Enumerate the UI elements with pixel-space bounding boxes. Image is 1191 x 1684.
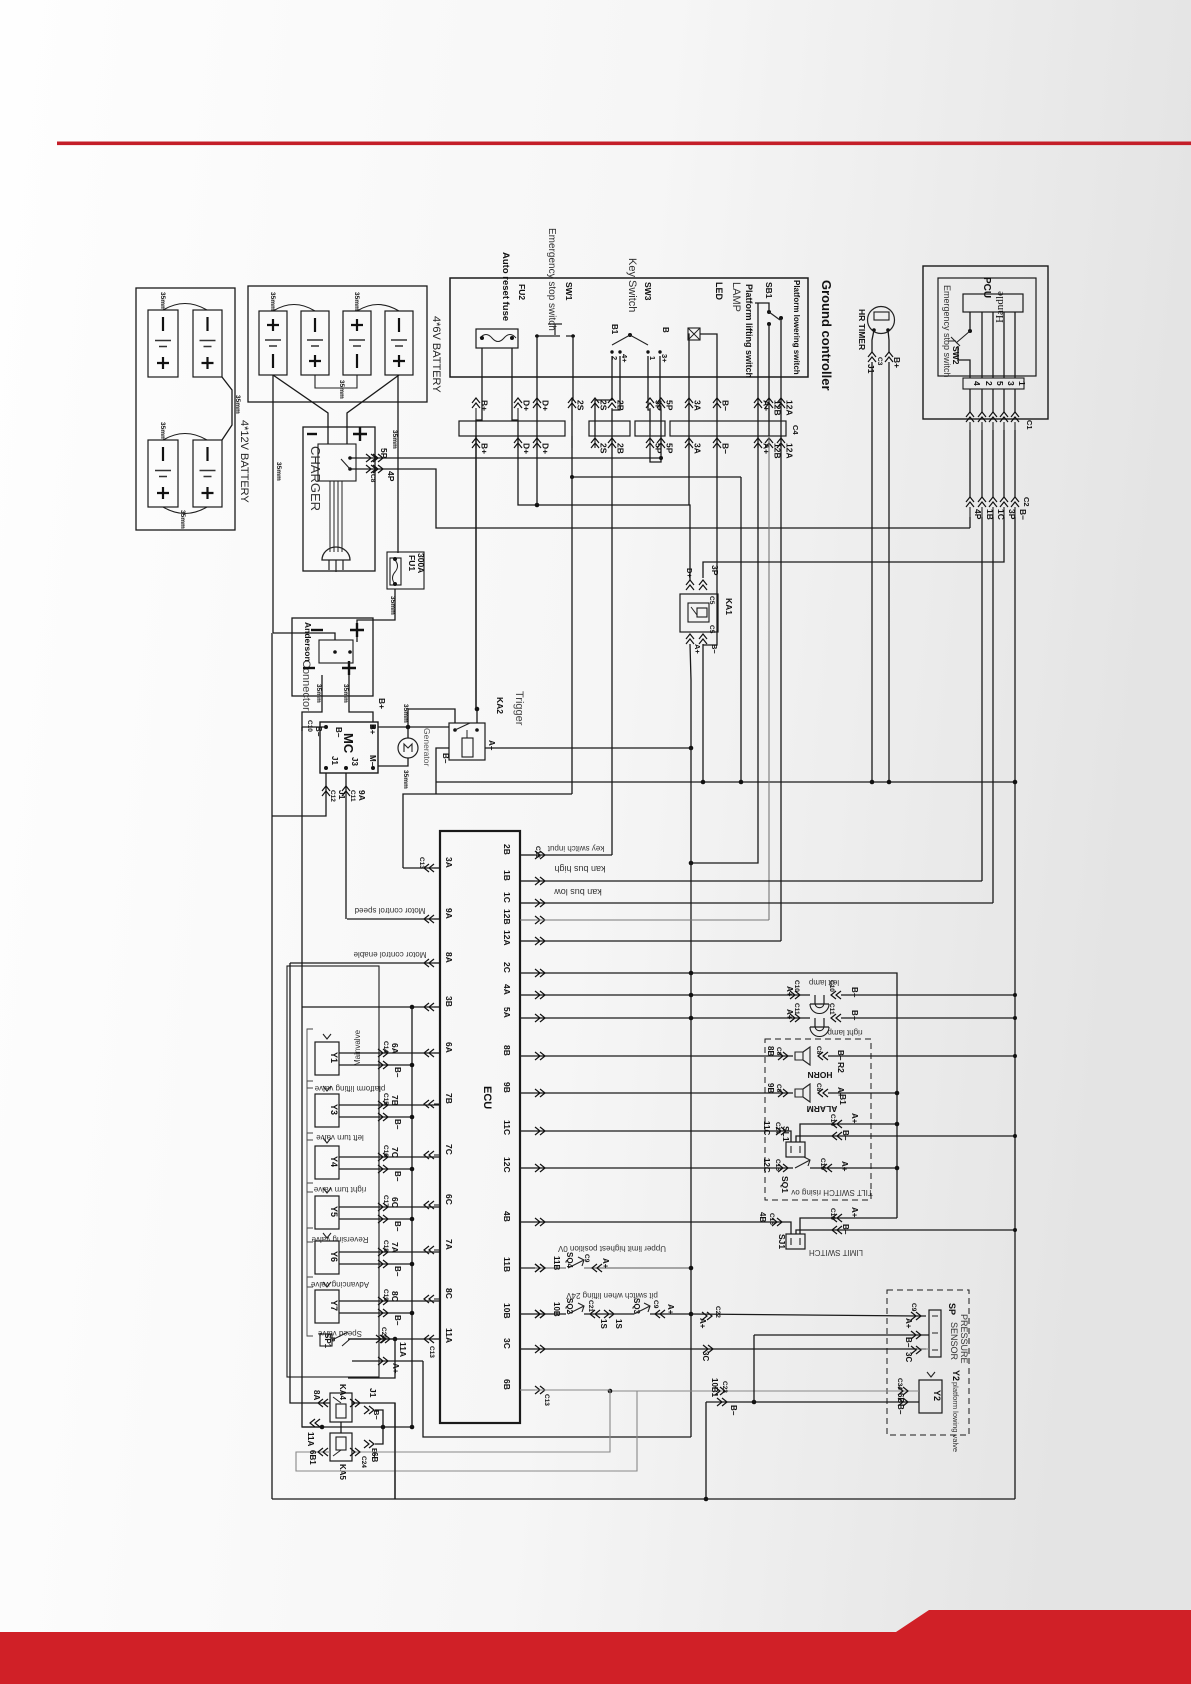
valve module box (287, 966, 379, 1377)
svg-text:C8: C8 (369, 474, 376, 483)
svg-text:B−: B− (372, 1410, 381, 1420)
fuse FU1 300A box (387, 552, 424, 589)
ECU main box (440, 831, 520, 1423)
8A rail down to KA4 (290, 963, 330, 1403)
svg-text:35mm: 35mm (389, 596, 396, 615)
svg-text:platform lifting valve: platform lifting valve (314, 1084, 385, 1093)
svg-text:11A: 11A (398, 1342, 408, 1357)
junction line 11A (302, 1426, 412, 1428)
charger internal box with relay contact (318, 444, 356, 481)
svg-text:SENSOR: SENSOR (949, 1322, 959, 1361)
svg-text:4*12V BATTERY: 4*12V BATTERY (238, 420, 250, 503)
svg-text:B+: B+ (480, 400, 490, 411)
red header rule (57, 142, 1191, 146)
wire B+ main down from bar (475, 436, 477, 709)
wire FU1 to Anderson plus 35mm (357, 589, 395, 642)
svg-text:Advancing valve: Advancing valve (310, 1280, 369, 1289)
svg-text:2C: 2C (502, 962, 512, 973)
wire SW1 left to D+ arrow (536, 336, 538, 436)
svg-text:J1: J1 (368, 1388, 378, 1398)
svg-text:10B1: 10B1 (710, 1378, 719, 1398)
svg-text:C23: C23 (721, 1381, 728, 1393)
svg-text:C15: C15 (819, 1158, 826, 1170)
battery cell G2 (193, 310, 222, 377)
svg-text:PRESSURE: PRESSURE (959, 1314, 969, 1364)
wire Anderson plus down to MC B+ 35mm (349, 675, 373, 722)
svg-text:J1: J1 (330, 756, 339, 765)
svg-text:FU1: FU1 (407, 555, 417, 571)
wire SL1 signal 11C from ECU (520, 1131, 791, 1142)
svg-text:C1: C1 (1025, 420, 1034, 430)
wire alarm A+ to 2C rail (828, 1092, 897, 1094)
svg-text:12A: 12A (785, 400, 795, 416)
battery cell G8 (385, 311, 413, 375)
charger AC plug (322, 547, 350, 560)
C4 bar pin arrows and labels above/below (472, 398, 480, 408)
svg-text:B−: B− (393, 1067, 402, 1078)
svg-text:4: 4 (972, 381, 982, 386)
svg-text:7B: 7B (390, 1095, 400, 1106)
contactor MC box (320, 722, 378, 773)
svg-text:A+: A+ (487, 740, 496, 751)
svg-text:C12: C12 (329, 790, 336, 802)
wire SB1 A+ down (757, 303, 759, 436)
wire Y3 B- return (339, 1116, 412, 1118)
valve Y4 (307, 1133, 313, 1192)
svg-text:D+: D+ (522, 400, 532, 411)
svg-text:10B: 10B (552, 1302, 561, 1317)
svg-text:8C: 8C (390, 1291, 400, 1302)
svg-text:C15: C15 (774, 1159, 781, 1171)
svg-text:11C: 11C (762, 1121, 771, 1135)
svg-text:C14: C14 (382, 1041, 389, 1053)
svg-text:11C: 11C (502, 1120, 512, 1135)
svg-text:kan bus high: kan bus high (554, 864, 605, 874)
wire B- return via bottom (705, 1402, 707, 1499)
wire KA5 coil up to junction (340, 1427, 342, 1433)
wire MC J1 pin down with arrow to frame rail (272, 773, 326, 816)
svg-text:1: 1 (648, 356, 657, 360)
svg-text:Y2: Y2 (951, 1370, 961, 1381)
svg-text:5P: 5P (665, 443, 675, 454)
svg-text:11B: 11B (502, 1257, 512, 1272)
wire SW1 right to 2S arrow with jog (572, 336, 573, 436)
wire 2B from bar down to ECU key switch input (611, 436, 613, 855)
battery cell G5 (259, 311, 287, 375)
wire SP B- drop (753, 1335, 755, 1402)
svg-text:B−: B− (841, 1224, 850, 1235)
wire B- bus corner to ECU 3A feed (403, 794, 572, 868)
wire SJ1 B- from B- rail (796, 1230, 1015, 1234)
svg-text:LAMP: LAMP (730, 282, 742, 312)
svg-text:3: 3 (1006, 381, 1016, 386)
wire KA4 coil to junction (340, 1422, 342, 1427)
svg-text:11A: 11A (444, 1328, 454, 1343)
svg-text:2S: 2S (576, 400, 586, 411)
wire handle 1B kan bus high down (981, 517, 983, 881)
cell interconnect arcs 35mm (163, 304, 207, 311)
svg-text:Y6: Y6 (329, 1251, 339, 1262)
svg-text:300A: 300A (416, 553, 426, 573)
svg-text:1S: 1S (599, 1319, 608, 1329)
svg-text:B+: B+ (368, 724, 377, 735)
svg-text:platform lowing valve: platform lowing valve (951, 1382, 960, 1452)
svg-text:right turn valve: right turn valve (313, 1185, 366, 1194)
svg-text:C11: C11 (793, 1003, 800, 1015)
svg-text:Reversing valve: Reversing valve (311, 1235, 368, 1244)
svg-text:5P: 5P (665, 400, 675, 411)
charger AC cord (330, 481, 342, 552)
svg-text:8B: 8B (766, 1046, 775, 1056)
svg-text:C10: C10 (828, 980, 835, 992)
svg-text:7A: 7A (390, 1242, 400, 1253)
wire Y6 signal 7A (339, 1251, 440, 1253)
svg-text:SP: SP (947, 1303, 957, 1315)
svg-text:2S: 2S (599, 400, 609, 411)
relay KA4 box (330, 1393, 352, 1422)
wire key switch input 2B (520, 854, 612, 856)
svg-text:3A: 3A (444, 857, 454, 868)
wire SL1 B- from B- rail (796, 1136, 1015, 1142)
svg-text:A+: A+ (785, 986, 794, 997)
svg-text:KA4: KA4 (338, 1384, 347, 1401)
svg-text:35mm: 35mm (391, 430, 398, 449)
svg-text:J1: J1 (866, 364, 876, 374)
svg-text:3C: 3C (904, 1352, 913, 1362)
pressure sensor pin wires (911, 1312, 921, 1320)
svg-text:kan bus low: kan bus low (554, 887, 602, 897)
valve Y3 (307, 1081, 313, 1140)
wire MC B+ to KA2 and generator (378, 726, 449, 728)
svg-text:A+: A+ (698, 1318, 707, 1329)
svg-text:A+: A+ (785, 1009, 794, 1020)
KA1 pins (686, 580, 694, 590)
svg-text:6B: 6B (502, 1379, 512, 1390)
valve Y1 (307, 1029, 313, 1088)
2C rail from ECU to switch column (520, 973, 897, 1218)
svg-text:6C: 6C (444, 1194, 454, 1205)
svg-text:SQ3: SQ3 (632, 1298, 641, 1315)
wire J1 drop from KA4 to bottom (394, 1403, 396, 1499)
svg-text:C10: C10 (306, 720, 313, 732)
wire SP1 to ECU 11A (348, 1338, 395, 1340)
svg-text:Trigger: Trigger (513, 691, 525, 726)
svg-text:4B: 4B (758, 1212, 767, 1222)
battery bank B1 4*6V BATTERY box (248, 286, 427, 402)
wire handle B- down to main B- rail (1014, 517, 1016, 1499)
svg-text:Motor control enable: Motor control enable (353, 950, 426, 959)
svg-text:HORN: HORN (807, 1070, 832, 1080)
ECU 6B wire down to KA5 (520, 1389, 610, 1391)
red footer band (0, 1610, 1191, 1684)
wire SP1 lower terminal (348, 1339, 395, 1378)
Handle box (963, 294, 1023, 312)
wire left lamp B- to rail (841, 994, 1015, 996)
svg-text:7A: 7A (444, 1239, 454, 1250)
svg-text:3A: 3A (693, 443, 703, 454)
wire timer B+ lead (888, 330, 889, 352)
svg-text:C3: C3 (876, 357, 883, 366)
wire Y4 B- return (339, 1168, 412, 1170)
svg-text:KA1: KA1 (724, 598, 734, 615)
relay KA1 box (680, 594, 718, 632)
wire Y1 signal 6A (339, 1052, 440, 1054)
svg-text:C13: C13 (428, 1346, 435, 1358)
svg-text:LIMIT SWITCH: LIMIT SWITCH (809, 1248, 863, 1257)
svg-text:35mm: 35mm (159, 292, 166, 311)
svg-text:6A: 6A (390, 1043, 400, 1054)
svg-text:FU2: FU2 (517, 284, 527, 300)
svg-text:6B: 6B (370, 1452, 379, 1462)
svg-text:C34: C34 (896, 1378, 903, 1390)
wire SB1 12A down (780, 318, 782, 436)
B- valve rail (411, 1007, 413, 1427)
svg-text:3C: 3C (701, 1351, 710, 1361)
valve Y2 platform lowering (919, 1380, 942, 1413)
svg-text:C9: C9 (583, 1254, 590, 1263)
svg-text:9B: 9B (766, 1083, 775, 1093)
hour meter HR TIMER (868, 307, 895, 334)
wire lamp to 3A arrow (688, 334, 689, 436)
pressure sensor dashed box (887, 1290, 969, 1435)
svg-text:A+: A+ (601, 1258, 610, 1269)
svg-text:PCU: PCU (981, 277, 992, 298)
Anderson connector box (292, 618, 373, 696)
svg-text:C16: C16 (829, 1208, 836, 1220)
svg-text:D+: D+ (541, 443, 551, 454)
svg-text:4B: 4B (502, 1211, 512, 1222)
svg-text:TILT SWITCH rising ov: TILT SWITCH rising ov (791, 1188, 873, 1197)
svg-text:C24: C24 (360, 1456, 367, 1468)
wire Y5 signal 6C (339, 1206, 440, 1208)
wire Y2 6B feed (610, 1390, 919, 1392)
wire 2S bus drop to B- bus (740, 477, 742, 782)
svg-text:C8: C8 (775, 1047, 782, 1056)
svg-text:B−: B− (393, 1171, 402, 1182)
wire 12B from bar down to ECU (768, 436, 770, 920)
svg-text:B−: B− (393, 1119, 402, 1130)
handle wires to pin strip 4 2 5 3 1 (963, 378, 1024, 389)
wire D+ 518 to KA1 feed (518, 436, 690, 580)
wire battery minus into Anderson (273, 633, 335, 640)
svg-text:C8: C8 (815, 1046, 822, 1055)
svg-text:B−: B− (334, 727, 343, 738)
svg-text:Platform lowering switch: Platform lowering switch (792, 280, 801, 375)
wire KA2 left pin B- down and right as B- bus (436, 748, 449, 794)
wire 3A from bar down to B- bus region (688, 436, 690, 505)
valve Y7 (307, 1277, 313, 1336)
relay KA5 box (330, 1433, 352, 1461)
svg-text:Anderson: Anderson (303, 622, 313, 662)
svg-text:11B: 11B (552, 1256, 561, 1270)
svg-text:9A: 9A (444, 908, 454, 919)
svg-text:C17: C17 (382, 1195, 389, 1207)
svg-text:9B: 9B (502, 1082, 512, 1093)
svg-text:Y4: Y4 (329, 1156, 339, 1167)
svg-text:12A: 12A (502, 930, 512, 946)
SW3 contacts (628, 333, 632, 337)
battery cell G1 (148, 310, 178, 377)
svg-text:B−: B− (393, 1221, 402, 1232)
svg-text:Y2: Y2 (932, 1390, 942, 1401)
wire 3C from ECU to pressure sensor (520, 1348, 926, 1350)
wire SW3 to 5P arrows (648, 356, 650, 436)
wire 12B to C4 (520, 919, 769, 921)
battery cell G7 (343, 311, 371, 375)
svg-text:35mm: 35mm (353, 292, 360, 311)
bottom return line (272, 1498, 1015, 1500)
svg-text:35mm: 35mm (269, 292, 276, 311)
svg-text:1B: 1B (502, 870, 512, 881)
svg-text:B−: B− (721, 443, 731, 454)
wire SP1 A+ line to A+ rail (352, 1360, 423, 1362)
svg-text:M−: M− (368, 755, 377, 767)
svg-text:SB1: SB1 (764, 282, 774, 299)
svg-text:4A: 4A (502, 984, 512, 995)
svg-text:6C: 6C (390, 1197, 400, 1208)
wire timer B+ down to B- bus (888, 362, 890, 782)
wire horn B- to rail (828, 1055, 1015, 1057)
svg-text:8C: 8C (444, 1288, 454, 1299)
svg-text:D+: D+ (522, 443, 532, 454)
svg-text:7C: 7C (390, 1147, 400, 1158)
wire handle 3P down to KA1 (703, 517, 1004, 578)
svg-text:C18: C18 (382, 1240, 389, 1252)
wire KA4 J1 to frame via SP1 drop (352, 1403, 395, 1499)
wire KA5 B- branch (375, 1427, 383, 1444)
svg-text:Y7: Y7 (329, 1300, 339, 1311)
svg-text:C8: C8 (775, 1084, 782, 1093)
svg-text:C9: C9 (910, 1303, 917, 1312)
svg-text:C14: C14 (774, 1122, 781, 1134)
svg-text:12C: 12C (762, 1158, 771, 1173)
svg-text:C10: C10 (793, 980, 800, 992)
svg-text:C14: C14 (829, 1114, 836, 1126)
svg-text:B−: B− (710, 644, 719, 654)
svg-text:3C: 3C (502, 1338, 512, 1349)
svg-text:R2: R2 (836, 1062, 846, 1073)
charger U1 box (303, 427, 375, 571)
svg-text:B−: B− (850, 1010, 859, 1021)
wire lamp to B- arrow (700, 334, 717, 436)
wire 2S below bar to 2S bus (572, 436, 741, 477)
wire battery plus 35mm to FU1 (397, 375, 399, 553)
wire B+ feed from C4 bar to KA2 top (476, 436, 477, 723)
svg-text:35mm: 35mm (338, 380, 345, 399)
wire KA5 6B right to ECU (352, 1390, 610, 1452)
svg-text:B+: B+ (377, 698, 387, 709)
svg-text:KA5: KA5 (338, 1464, 347, 1481)
svg-text:2B: 2B (502, 844, 512, 855)
battery cell G4 (193, 440, 222, 507)
svg-text:Generator: Generator (422, 728, 432, 766)
wire battery minus rail 35mm down left side (272, 375, 274, 633)
svg-text:B−: B− (441, 753, 450, 764)
svg-text:C5: C5 (708, 625, 715, 634)
svg-text:SQ1: SQ1 (780, 1176, 790, 1193)
svg-text:5P: 5P (379, 448, 389, 459)
svg-text:Mainvalve: Mainvalve (353, 1029, 362, 1066)
wire timer J1 lead (872, 330, 874, 352)
platform control unit outer box (923, 266, 1048, 419)
svg-text:right lamp: right lamp (827, 1028, 863, 1037)
PCU inner box (938, 278, 1036, 376)
wire handle 1C kan bus low down (992, 517, 994, 903)
wire charger 5P interlock to C4 bar (350, 436, 661, 458)
svg-text:Key Switch: Key Switch (626, 258, 638, 312)
svg-text:12A: 12A (785, 443, 795, 459)
wire Y2 B- feed (706, 1401, 919, 1403)
svg-text:Emergency stop switch: Emergency stop switch (942, 285, 952, 378)
svg-text:35mm: 35mm (159, 422, 166, 441)
svg-text:1S: 1S (614, 1319, 623, 1329)
svg-text:left turn valve: left turn valve (316, 1133, 364, 1142)
svg-text:B−: B− (841, 1130, 850, 1141)
svg-text:B−: B− (393, 1266, 402, 1277)
wire MC B- to left return rail (302, 726, 326, 728)
wire Y6 B- return (339, 1263, 412, 1265)
wire ECU 3B to left rail (302, 1006, 440, 1008)
svg-text:2B: 2B (616, 443, 626, 454)
wire Y7 B- return (339, 1312, 412, 1314)
svg-text:35mm: 35mm (315, 684, 322, 703)
svg-text:3A: 3A (693, 400, 703, 411)
wire right lamp B- to rail (841, 1017, 1015, 1019)
svg-text:6B1: 6B1 (308, 1450, 317, 1465)
wire generator top (407, 727, 409, 738)
svg-text:11A: 11A (306, 1432, 315, 1446)
svg-text:Motor control speed: Motor control speed (355, 906, 426, 915)
wire KA1 A+ pin down to A+ rail junction (690, 644, 691, 748)
svg-text:4*6V BATTERY: 4*6V BATTERY (430, 316, 442, 393)
svg-text:C13: C13 (543, 1394, 550, 1406)
wire 2S drop to B- link (571, 477, 573, 794)
KA1 coil (688, 603, 709, 622)
wire KA1 B- pin down to B- bus (702, 644, 704, 782)
inter-group jumper 35mm (222, 377, 232, 440)
wire A+ 758 from bar down (691, 436, 758, 863)
battery cell G3 (148, 440, 178, 507)
svg-text:2: 2 (984, 381, 994, 386)
svg-text:D+: D+ (685, 568, 694, 578)
svg-text:SW1: SW1 (564, 282, 574, 301)
svg-text:B+: B+ (892, 357, 902, 368)
svg-text:ECU: ECU (481, 1086, 493, 1109)
svg-text:A+: A+ (391, 1363, 400, 1374)
valve Y6 (307, 1228, 313, 1287)
svg-text:ALARM: ALARM (807, 1104, 838, 1114)
svg-text:J3: J3 (350, 757, 359, 766)
wire ECU 3A from B- bus corner (403, 867, 440, 869)
svg-text:B−: B− (729, 1405, 738, 1416)
wire Y5 B- return (339, 1218, 412, 1220)
svg-text:A+: A+ (840, 1161, 849, 1172)
wire SW3 to 2B arrow (612, 356, 620, 436)
wire battery to charger crossing pair (273, 375, 328, 444)
svg-text:Y1: Y1 (329, 1052, 339, 1063)
battery bank B2 4*12V BATTERY box (136, 288, 235, 530)
svg-text:3P: 3P (710, 565, 720, 576)
svg-text:C16: C16 (382, 1145, 389, 1157)
svg-text:35mm: 35mm (179, 510, 186, 529)
wire ECU 11A from SP1 (348, 1338, 440, 1340)
svg-text:C4: C4 (791, 425, 800, 435)
svg-text:Emergency stop switch: Emergency stop switch (546, 228, 557, 331)
svg-text:C9: C9 (652, 1300, 659, 1309)
wire FU2 left to B+ arrow (476, 348, 482, 436)
svg-text:3+: 3+ (660, 354, 669, 363)
svg-text:HR TIMER: HR TIMER (857, 309, 867, 350)
